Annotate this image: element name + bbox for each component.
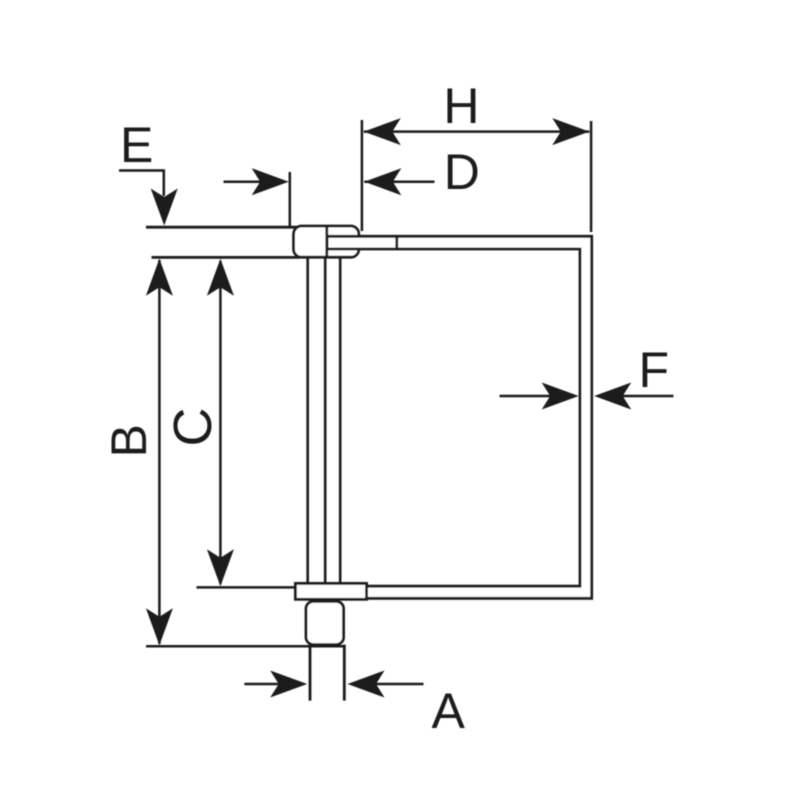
svg-text:H: H: [443, 78, 479, 134]
svg-text:D: D: [444, 144, 480, 200]
svg-text:C: C: [163, 408, 223, 447]
svg-text:E: E: [120, 117, 153, 173]
svg-text:A: A: [432, 683, 466, 739]
svg-text:F: F: [639, 342, 670, 398]
svg-text:B: B: [101, 424, 157, 457]
